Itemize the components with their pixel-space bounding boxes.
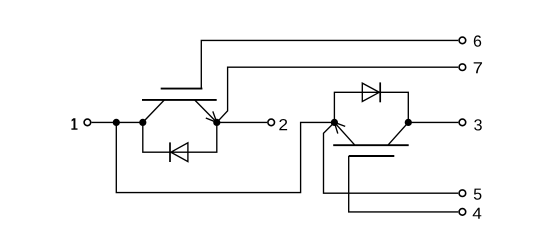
diode D1 triangle <box>171 143 188 162</box>
terminal 1 <box>84 119 91 126</box>
label 7 <box>474 62 482 73</box>
IGBT Q1 gate bar <box>161 88 203 90</box>
terminal 3 <box>459 119 466 126</box>
diode D1 cathode bar <box>169 142 171 162</box>
wire node E to terminal 3 <box>408 121 458 123</box>
label 4 <box>473 208 482 219</box>
terminal 6 <box>459 37 466 44</box>
node A junction dot <box>113 119 120 126</box>
diode D2 triangle <box>362 83 379 101</box>
wire terminal 6 to gate of Q1 <box>201 40 458 88</box>
label 6 <box>474 35 481 46</box>
terminal 5 <box>459 190 466 197</box>
node B junction dot <box>139 119 146 126</box>
IGBT Q2 channel bar <box>333 144 409 146</box>
node E junction dot <box>405 119 412 126</box>
node D junction dot <box>331 119 338 126</box>
IGBT Q2 collector diagonal <box>388 122 408 145</box>
wire node C to terminal 2 <box>217 121 267 123</box>
node C junction dot <box>213 119 220 126</box>
wire terminal 7 to node C <box>217 67 458 122</box>
wire gate of Q2 to terminal 4 <box>349 156 459 212</box>
label 2 <box>279 119 287 130</box>
wire node D to terminal 5 <box>324 122 459 193</box>
label 3 <box>474 119 482 130</box>
diode D2 cathode bar <box>379 82 381 102</box>
label 5 <box>474 189 482 200</box>
diode D2 loop wire <box>334 92 408 122</box>
IGBT Q1 collector diagonal <box>143 100 165 123</box>
wire node A to node D (bottom loop) <box>116 122 334 192</box>
terminal 7 <box>459 64 466 71</box>
IGBT Q1 emitter arrow <box>206 111 217 122</box>
IGBT Q1 channel bar <box>142 99 217 101</box>
IGBT Q2 emitter arrow <box>334 122 345 133</box>
diode D1 loop wire <box>143 122 217 152</box>
terminal 4 <box>459 209 466 216</box>
wire terminal 1 to node B <box>92 121 143 123</box>
terminal 2 <box>268 119 275 126</box>
IGBT Q2 gate bar <box>349 155 395 157</box>
IGBT Q1 emitter diagonal <box>195 100 217 123</box>
label 1 <box>71 118 77 130</box>
IGBT Q2 emitter diagonal <box>334 122 355 145</box>
